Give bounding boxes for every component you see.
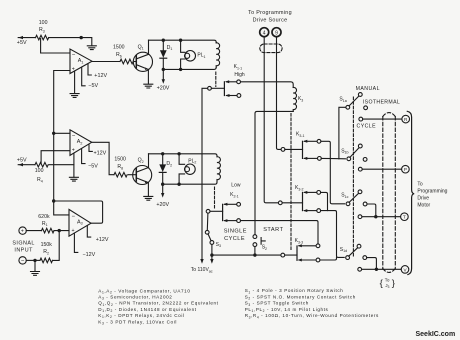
relay coil K2	[217, 156, 220, 182]
svg-text:High: High	[234, 72, 245, 78]
switch S2 upper contact circle	[253, 235, 257, 239]
connector circle K3-2 common	[278, 201, 282, 205]
switch S1d blade	[349, 248, 358, 257]
svg-text:CYCLE: CYCLE	[357, 123, 377, 129]
ground at R3 node	[87, 46, 96, 50]
svg-text:SIGNAL: SIGNAL	[12, 241, 34, 247]
diode D2	[159, 154, 172, 184]
label Low K2-1	[230, 182, 241, 198]
relay contact K3-3 lower throw	[298, 258, 320, 262]
switch S1b contact top	[358, 144, 362, 148]
+5V supply arrow stage2	[17, 158, 35, 167]
lamp PL2	[179, 154, 196, 184]
wire S1d middle jog to V line	[367, 258, 377, 270]
relay contact K3-2 lower throw	[303, 209, 321, 213]
wire stage2 bottom rail	[163, 182, 217, 184]
switch S1c contact top	[358, 190, 362, 194]
wire S1d bottom contact to terminal V	[362, 268, 402, 270]
ground at input minus	[31, 260, 40, 275]
switch S1a contact MANUAL	[358, 93, 362, 97]
switch S1d contact middle	[363, 256, 367, 260]
wire R3 wiper to A1 inverting input	[41, 39, 70, 54]
label To J3 bracket	[380, 277, 395, 288]
node D2 bottom	[161, 183, 164, 186]
wire R8 to Q2 base	[129, 174, 137, 176]
wire S1c bottom contact to terminal T	[362, 216, 401, 218]
switch S1a contact CYCLE	[359, 117, 363, 121]
wire K3-3 lower to S1d line	[320, 257, 337, 260]
switch S3 middle contact circle	[205, 230, 209, 234]
wire K1-1 NO to K3 coil	[241, 82, 294, 88]
node A3 feedback on bus	[52, 199, 55, 202]
wire bus junction to A2 inverting input	[54, 132, 70, 134]
switch S1d contact bottom	[358, 267, 362, 271]
dashed cable bottom arc	[383, 269, 396, 273]
node PL1 top	[179, 39, 182, 42]
wire A1 output to R6	[92, 61, 120, 63]
A2 ground lead	[73, 153, 75, 177]
wire K1-1 pole to bar	[211, 87, 224, 89]
resistor R2 150k	[40, 242, 52, 263]
svg-text:+5V: +5V	[17, 40, 27, 46]
wire S3 to bottom rail	[211, 244, 213, 259]
svg-text:P: P	[404, 167, 407, 172]
wire K3 coil bottom to S2	[255, 111, 293, 234]
wire stage2 top rail	[149, 154, 218, 156]
A3 +12V lead	[87, 226, 109, 243]
wire long vertical bus to A1 non-inverting input	[54, 71, 70, 202]
switch S1b contact middle	[363, 158, 367, 162]
terminal T	[401, 213, 409, 221]
wire S1b bottom contact to terminal P	[362, 168, 401, 170]
svg-text:+12V: +12V	[94, 150, 107, 156]
label To Programming Drive Motor	[417, 182, 447, 209]
svg-text:Programming: Programming	[417, 189, 447, 195]
+5V supply arrow stage1	[17, 36, 36, 46]
relay contact K3-3 upper throw	[298, 244, 320, 248]
svg-text:9: 9	[275, 30, 278, 36]
node D1 bottom	[162, 68, 165, 71]
switch S1c pole	[346, 202, 350, 206]
switch S2 lower contact circle	[253, 243, 257, 247]
svg-text:+5V: +5V	[17, 158, 27, 164]
svg-text:MANUAL: MANUAL	[356, 86, 380, 92]
svg-text:{: {	[380, 278, 383, 289]
op-amp U A3	[69, 209, 91, 236]
wire Q2 collector to top rail	[148, 154, 150, 168]
svg-text:100: 100	[39, 20, 48, 26]
transistor Q1	[133, 44, 152, 71]
svg-text:−5V: −5V	[88, 163, 98, 169]
svg-text:}: }	[392, 278, 395, 289]
relay contact K1-1 bar	[223, 82, 225, 96]
wire R6 to Q1 base	[135, 61, 137, 63]
svg-text:INPUT: INPUT	[14, 248, 33, 254]
wire stage1 top rail	[149, 40, 217, 42]
relay contact K1-1 NO throw	[225, 80, 241, 84]
wire Q1 collector to top rail	[148, 40, 150, 54]
svg-text:Drive: Drive	[417, 196, 429, 202]
relay contact K1-1 pole circle	[208, 86, 212, 90]
dashed link K3 gang	[290, 114, 292, 251]
svg-text:+12V: +12V	[94, 73, 107, 79]
transistor Q2	[133, 158, 152, 185]
terminal signal input minus	[19, 257, 26, 265]
relay coil K3	[293, 87, 303, 111]
arrow to 110Vac right	[210, 259, 213, 264]
wire K1-1 pole to 110V line	[202, 88, 208, 259]
ground under A1	[70, 94, 79, 98]
relay contact K2-1 bar	[222, 204, 224, 220]
resistor R1 620k	[38, 214, 54, 233]
svg-text:150k: 150k	[41, 242, 53, 248]
relay contact K2-1 NC throw	[223, 219, 240, 223]
svg-text:4: 4	[263, 30, 266, 36]
resistor R8 1500	[114, 157, 127, 177]
wire Q2 emitter down	[147, 183, 149, 197]
A3 -12V lead	[74, 233, 95, 258]
switch S2 actuator	[261, 238, 265, 245]
wire stage1 bottom rail	[163, 67, 216, 69]
arrow to 110Vac left	[200, 259, 203, 264]
node S3 bottom rail	[210, 253, 213, 256]
ground under Q2	[144, 196, 153, 200]
svg-text:T: T	[403, 215, 406, 220]
node S1c T line	[374, 215, 377, 218]
wire K3-1 upper to S1c pole	[321, 141, 345, 204]
switch S3 lower contact circle	[210, 241, 214, 245]
svg-text:1500: 1500	[114, 157, 126, 163]
svg-text:CYCLE: CYCLE	[224, 236, 245, 242]
svg-text:−5V: −5V	[88, 83, 98, 89]
connector circle bottom rail	[281, 253, 285, 257]
switch S1c contact bottom	[358, 215, 362, 219]
ground under Q1	[144, 84, 153, 88]
wire R4 to A2 ground lead	[49, 164, 74, 166]
node S1d V line	[375, 268, 378, 271]
svg-text:Drive Source: Drive Source	[253, 17, 288, 23]
svg-text:+20V: +20V	[157, 85, 170, 91]
connector circle K3-1 common	[281, 148, 285, 152]
svg-text:+20V: +20V	[156, 202, 169, 208]
dashed cable top arc	[383, 113, 396, 117]
wire K3-2 upper jog to lower line	[321, 192, 328, 210]
wire bottom rail to K3-3 bar	[212, 254, 297, 256]
lamp PL1	[181, 40, 206, 69]
dashed link K2 coil to S3 area	[214, 187, 216, 209]
svg-text:To: To	[385, 277, 390, 282]
wire terminal 4 down to K3-2 common	[264, 37, 278, 203]
diode D1	[160, 40, 172, 69]
svg-text:To: To	[417, 182, 423, 188]
svg-text:SeekIC.com: SeekIC.com	[416, 331, 456, 338]
svg-text:START: START	[263, 227, 283, 233]
op-amp U A1	[70, 49, 92, 74]
wire S3 upper to middle contact	[206, 213, 209, 230]
junction node R3	[80, 36, 83, 39]
node input minus ground	[33, 259, 36, 262]
svg-text:+: +	[21, 229, 24, 235]
switch S1b blade	[350, 148, 359, 158]
svg-text:−: −	[72, 134, 76, 140]
wire R2 riser to A3 plus node	[53, 231, 60, 261]
resistor R3 100 ohm pot	[36, 20, 49, 40]
wire K3-1 lower to S1b pole	[321, 157, 345, 159]
+20V supply arrow stage2	[156, 184, 169, 208]
relay coil K1	[216, 42, 219, 67]
switch S1b contact bottom	[358, 167, 362, 171]
wire R3 to ground node	[49, 38, 92, 46]
svg-text:620k: 620k	[38, 214, 50, 220]
op-amp U A2	[70, 130, 92, 156]
node S2 bottom rail	[253, 253, 256, 256]
svg-text:−: −	[21, 259, 25, 265]
switch S1c contact middle	[363, 202, 367, 206]
svg-text:SINGLE: SINGLE	[224, 229, 247, 235]
wire S1c middle jog to T line	[367, 204, 376, 217]
svg-text:+12V: +12V	[96, 237, 109, 243]
A2 -5V lead	[82, 149, 99, 170]
wire K3-2 lower to S1d pole	[321, 211, 345, 258]
wire S3 upper to K2-1 bar	[210, 210, 223, 212]
wire terminal 9 down to K3-1 common	[277, 37, 282, 150]
node PL2 top	[177, 152, 180, 155]
dashed cable right line	[394, 117, 396, 269]
svg-text:Low: Low	[231, 182, 241, 188]
svg-text:1500: 1500	[113, 44, 125, 50]
switch S1a blade	[349, 96, 359, 106]
dashed link K1 coil to K1-1	[215, 72, 217, 87]
relay contact K1-1 NC throw	[225, 94, 241, 98]
terminal V	[401, 266, 409, 274]
relay contact K3-1 bar	[302, 141, 304, 158]
node D2 top	[161, 152, 164, 155]
switch S1d pole	[346, 256, 350, 260]
node A3 plus input	[58, 229, 61, 232]
svg-text:To Programming: To Programming	[248, 10, 292, 16]
label To Programming Drive Source	[248, 10, 292, 23]
terminal R	[402, 115, 410, 123]
wire A2 output to R8	[92, 142, 114, 174]
node D1 top	[162, 39, 165, 42]
wire connector to K3-1 bar	[285, 148, 303, 150]
A1 +12V lead	[88, 64, 107, 79]
resistor R4 100 ohm pot	[35, 162, 48, 183]
relay contact K3-2 bar	[302, 192, 304, 210]
switch S1a pole	[346, 105, 350, 109]
node PL1 bottom	[179, 68, 182, 71]
brace to programming drive motor	[407, 111, 414, 274]
svg-text:−: −	[72, 214, 76, 220]
label SINGLE CYCLE	[224, 229, 247, 242]
terminal 4	[260, 28, 269, 37]
relay contact K2-1 NO throw	[223, 202, 240, 206]
wire A3 feedback loop	[54, 201, 103, 223]
terminal signal input plus	[19, 227, 26, 235]
svg-text:−: −	[72, 52, 76, 58]
wire Q1 emitter down	[147, 69, 149, 84]
switch S3 upper contact circle	[206, 209, 210, 213]
relay contact K3-3 bar	[296, 246, 298, 260]
wire S2 to bottom rail	[254, 247, 256, 256]
relay contact K3-2 upper throw	[303, 191, 321, 195]
wire K2-1 NC to K3-3 NO riser	[241, 221, 319, 244]
switch S1d contact top	[357, 244, 361, 248]
label K1-1 High	[234, 64, 245, 78]
wire input plus to R1	[26, 230, 41, 232]
node PL2 bottom	[177, 183, 180, 186]
terminal 9	[272, 28, 281, 37]
svg-text:−12V: −12V	[83, 252, 96, 258]
node A2 inverting on bus	[52, 132, 55, 135]
A1 -5V lead	[82, 67, 99, 89]
dashed gang line S1	[352, 97, 354, 257]
wire input minus to R2	[26, 259, 40, 261]
wire connector to K3-2 bar	[282, 202, 302, 204]
+20V supply arrow stage1	[157, 69, 170, 91]
ground under A2	[69, 177, 78, 181]
svg-text:ISOTHERMAL: ISOTHERMAL	[363, 99, 400, 105]
switch S1b pole	[347, 157, 351, 161]
dashed cable left line	[382, 117, 384, 269]
wire R1 to A3 non-inverting input	[54, 230, 69, 232]
A2 +12V lead	[89, 144, 107, 156]
svg-text:Motor: Motor	[417, 203, 430, 209]
svg-text:100: 100	[35, 168, 44, 174]
A1 ground lead	[74, 71, 76, 93]
wire S1a pole rail	[339, 107, 346, 159]
wire bus to A3 inverting input	[54, 201, 69, 215]
dashed connector outline top	[260, 44, 282, 53]
switch S1a contact ISOTHERMAL	[364, 106, 368, 110]
wire R4 wiper to A2 non-inverting input	[41, 151, 70, 164]
terminal P	[402, 165, 410, 173]
wire CYCLE contact to terminal R	[363, 118, 402, 120]
switch S1c blade	[349, 193, 359, 202]
label SIGNAL INPUT	[12, 241, 34, 254]
relay contact K3-1 lower throw	[303, 157, 321, 161]
switch S3 blade	[208, 234, 211, 241]
relay contact K3-1 upper throw	[303, 139, 321, 143]
resistor R6 1500	[113, 44, 133, 63]
